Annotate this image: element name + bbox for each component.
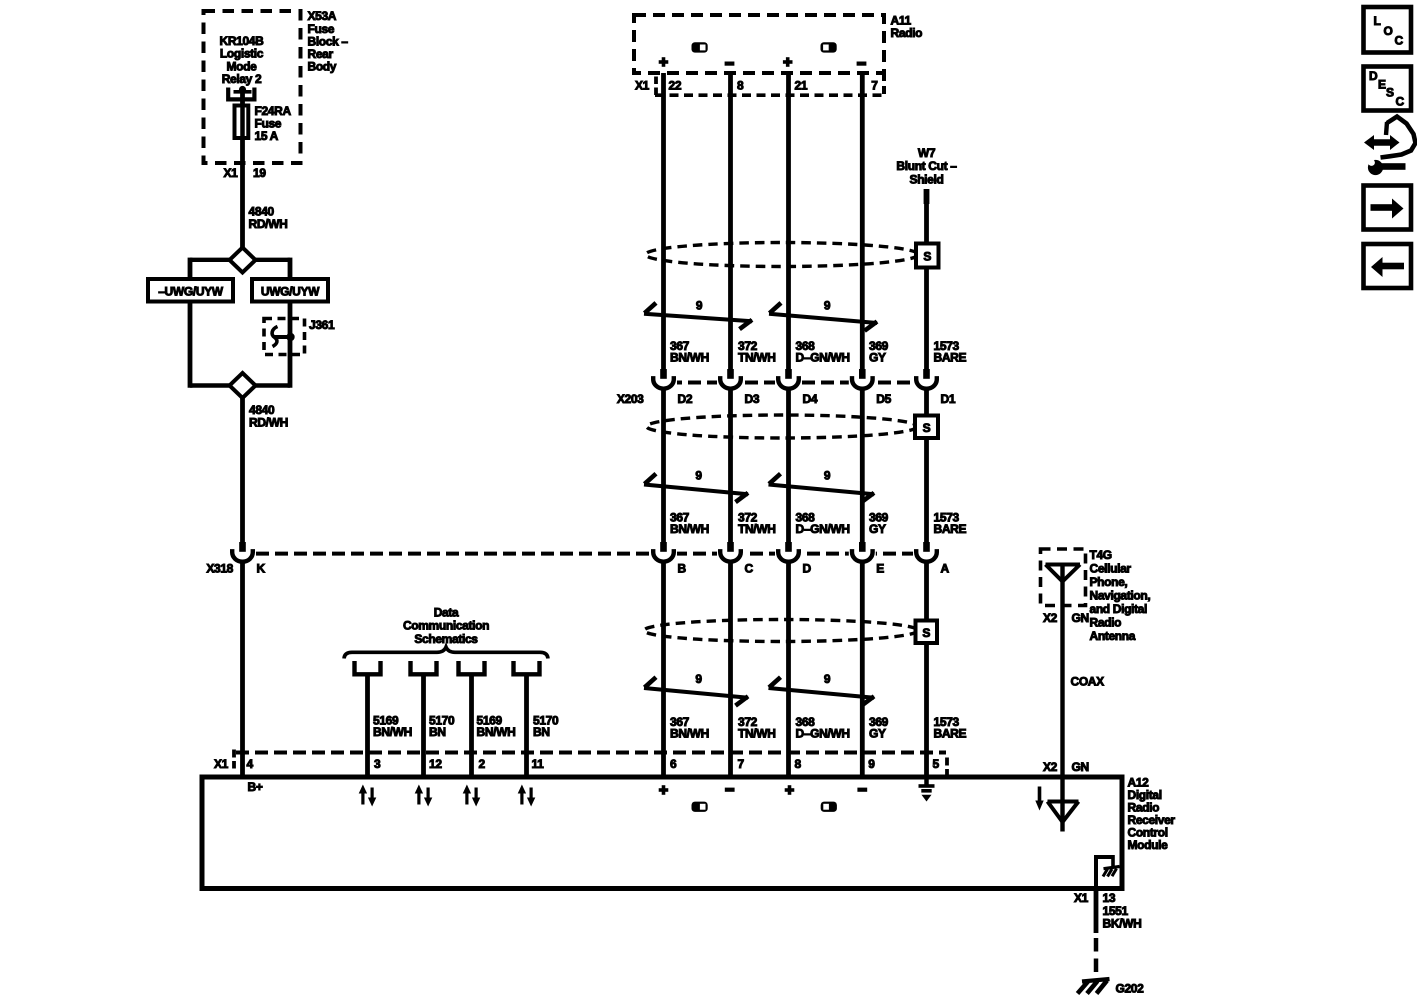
shield terminator S box 2 — [915, 416, 938, 439]
svg-text:S: S — [1386, 86, 1394, 100]
twisted pair row1 wires 368/369 — [769, 299, 877, 331]
polarity - pin 7 — [725, 788, 735, 792]
svg-text:BN: BN — [533, 725, 550, 739]
svg-text:X318: X318 — [206, 562, 233, 576]
wire 1573 BARE X203 to X318 — [924, 389, 929, 542]
svg-text:S: S — [922, 626, 930, 640]
icon box arrow right — [1364, 186, 1412, 230]
twisted pair row1 wires 367/372 — [644, 299, 752, 330]
wire 1551 BK/WH dashed to G202 — [1094, 938, 1099, 978]
wire 369 GY X203 to X318 — [860, 389, 865, 542]
wire 368 D-GN/WH X318 to module — [786, 562, 791, 777]
svg-text:GY: GY — [869, 351, 886, 365]
svg-text:Relay 2: Relay 2 — [222, 72, 262, 86]
svg-text:X1: X1 — [1074, 891, 1089, 905]
connector X318 dashed line — [256, 552, 917, 556]
svg-text:C: C — [745, 562, 754, 576]
svg-text:D–GN/WH: D–GN/WH — [796, 522, 850, 536]
svg-text:3: 3 — [374, 757, 381, 771]
svg-text:UWG/UYW: UWG/UYW — [261, 285, 320, 299]
wire 1573 BARE X318 to module pin 5 — [924, 562, 929, 777]
wire 372 TN/WH radio to X203 — [728, 73, 733, 369]
ground symbol pin 5 — [919, 777, 935, 802]
polarity + pin 22 — [662, 57, 666, 67]
wire left branch down — [188, 302, 193, 388]
speaker icon right channel (radio) — [821, 42, 837, 52]
polarity - pin 9 — [857, 788, 867, 792]
svg-text:GN: GN — [1072, 611, 1089, 625]
svg-text:BARE: BARE — [934, 351, 967, 365]
module X1 connector dashed line — [236, 751, 946, 755]
svg-text:Communication: Communication — [403, 619, 489, 633]
speaker icon right channel (module) — [821, 802, 837, 812]
svg-text:L: L — [1374, 14, 1381, 28]
svg-text:D4: D4 — [803, 392, 818, 406]
svg-text:22: 22 — [669, 79, 682, 93]
bidirectional data arrows pin 3 — [359, 785, 377, 807]
connector X203 terminal D1 — [913, 369, 940, 390]
shield loop 2 (X203 to X318) — [647, 415, 918, 438]
twisted pair row3 wires 367/372 — [644, 672, 748, 706]
connector X203 terminal D4 — [775, 369, 802, 390]
wire 5169 BN/WH data link — [365, 673, 370, 777]
svg-text:5: 5 — [933, 757, 940, 771]
wire 372 TN/WH X203 to X318 — [728, 389, 733, 542]
svg-text:2: 2 — [479, 757, 486, 771]
radio connector X1 end bracket — [654, 77, 658, 85]
coax antenna lead wire — [1060, 563, 1064, 777]
off-page connector serial data 4 — [514, 661, 540, 674]
svg-text:D5: D5 — [876, 392, 891, 406]
svg-text:X1: X1 — [635, 79, 650, 93]
wire 4840 RD/WH X318 to module pin 4 — [240, 562, 245, 777]
wire 5170 BN data link — [421, 673, 426, 777]
polarity - pin 7 — [857, 61, 867, 65]
svg-text:S: S — [923, 421, 931, 435]
connector X203 terminal D2 — [650, 369, 677, 390]
ground G202 symbol — [1078, 979, 1110, 994]
wire 367 BN/WH X318 to module — [661, 562, 666, 777]
svg-text:7: 7 — [738, 757, 745, 771]
wire 367 BN/WH radio to X203 — [661, 73, 666, 369]
connector X318 terminal K — [229, 542, 256, 563]
wire 1573 BARE W7 to X203 — [924, 203, 929, 369]
wire 4840 RD/WH splice to X318 pin K — [240, 396, 245, 542]
connector X203 terminal D5 — [849, 369, 876, 390]
wire right branch down — [288, 302, 293, 388]
svg-text:Blunt Cut –: Blunt Cut – — [896, 159, 957, 173]
svg-text:X2: X2 — [1043, 611, 1058, 625]
svg-text:B: B — [678, 562, 687, 576]
svg-text:J361: J361 — [309, 318, 335, 332]
wire branch lower — [190, 383, 230, 387]
option box UWG/UYW — [252, 279, 328, 302]
svg-text:and Digital: and Digital — [1090, 602, 1148, 616]
svg-text:Shield: Shield — [910, 172, 944, 186]
svg-text:TN/WH: TN/WH — [738, 522, 776, 536]
twisted pair row3 wires 368/369 — [769, 672, 875, 706]
svg-text:BN: BN — [429, 725, 446, 739]
bidirectional data arrows pin 11 — [518, 785, 536, 807]
svg-text:D–GN/WH: D–GN/WH — [796, 351, 850, 365]
svg-text:X1: X1 — [224, 166, 239, 180]
svg-text:BN/WH: BN/WH — [477, 725, 516, 739]
connector X203 dashed line — [650, 381, 917, 385]
wire 4840 RD/WH from fuse to splice — [240, 91, 245, 249]
svg-text:9: 9 — [824, 299, 831, 313]
svg-text:Body: Body — [308, 60, 337, 74]
module X1 bracket right — [945, 758, 949, 766]
off-page connector serial data 3 — [459, 661, 485, 674]
speaker icon left channel (radio) — [692, 42, 708, 52]
svg-text:Data: Data — [434, 606, 459, 620]
wire 369 GY radio to X203 — [860, 73, 865, 369]
svg-text:S: S — [923, 250, 931, 264]
svg-text:Phone,: Phone, — [1090, 575, 1128, 589]
antenna input arrow inside module — [1035, 787, 1043, 811]
splice diamond lower — [230, 373, 256, 398]
wire 1551 BK/WH pin 13 — [1094, 888, 1099, 933]
svg-text:12: 12 — [429, 757, 442, 771]
svg-text:19: 19 — [253, 166, 266, 180]
bidirectional data arrows pin 12 — [415, 785, 433, 807]
icon box arrow left — [1364, 244, 1412, 288]
icon box DESC — [1364, 67, 1412, 111]
svg-text:T4G: T4G — [1090, 548, 1112, 562]
svg-text:K: K — [257, 562, 266, 576]
svg-text:Cellular: Cellular — [1090, 562, 1132, 576]
svg-text:A: A — [941, 562, 950, 576]
svg-text:BN/WH: BN/WH — [670, 351, 709, 365]
svg-text:9: 9 — [696, 299, 703, 313]
shield terminator S box 3 — [916, 621, 938, 644]
svg-text:Module: Module — [1128, 838, 1169, 852]
svg-text:RD/WH: RD/WH — [249, 217, 288, 231]
connector X318 terminal B — [650, 542, 677, 563]
off-page connector serial data 2 — [411, 661, 437, 674]
svg-text:TN/WH: TN/WH — [738, 727, 776, 741]
svg-text:7: 7 — [871, 79, 878, 93]
polarity + pin 8 — [788, 785, 792, 795]
wire 1573 BARE shield drain blunt cut cap — [924, 189, 930, 204]
svg-text:9: 9 — [695, 672, 702, 686]
svg-text:9: 9 — [695, 469, 702, 483]
svg-text:X1: X1 — [214, 757, 229, 771]
connector X318 terminal A — [913, 542, 940, 563]
wire 372 TN/WH X318 to module — [728, 562, 733, 777]
svg-text:E: E — [1378, 78, 1386, 92]
svg-text:X203: X203 — [617, 392, 644, 406]
wire 5169 BN/WH(2) data link — [469, 673, 474, 777]
wire 368 D-GN/WH radio to X203 — [786, 73, 791, 369]
relay KR104B contact symbol — [228, 86, 254, 100]
svg-text:8: 8 — [795, 757, 802, 771]
svg-text:–UWG/UYW: –UWG/UYW — [158, 285, 224, 299]
fuse block X53A dashed box — [204, 11, 301, 163]
svg-text:BN/WH: BN/WH — [670, 727, 709, 741]
fuse F24RA symbol — [235, 106, 249, 139]
svg-text:D–GN/WH: D–GN/WH — [796, 727, 850, 741]
svg-text:BARE: BARE — [934, 727, 967, 741]
splice diamond upper — [230, 248, 256, 273]
twisted pair row2 wires 368/369 — [769, 469, 875, 503]
icon box LOC — [1364, 7, 1412, 53]
svg-text:O: O — [1384, 24, 1393, 38]
wire 369 GY X318 to module — [860, 562, 865, 777]
svg-text:21: 21 — [795, 79, 808, 93]
wire branch upper — [190, 258, 230, 262]
svg-text:BARE: BARE — [934, 522, 967, 536]
brace data communication — [344, 647, 548, 659]
wire 5170 BN(2) data link — [524, 673, 529, 777]
svg-text:D3: D3 — [745, 392, 760, 406]
connector X318 terminal D — [775, 542, 802, 563]
svg-text:GY: GY — [869, 522, 886, 536]
polarity + pin 6 — [662, 785, 666, 795]
svg-text:Navigation,: Navigation, — [1090, 589, 1151, 603]
connector X318 terminal C — [717, 542, 744, 563]
svg-text:X2: X2 — [1043, 760, 1058, 774]
svg-text:15 A: 15 A — [255, 129, 279, 143]
svg-text:13: 13 — [1103, 891, 1116, 905]
svg-text:G202: G202 — [1116, 982, 1145, 996]
svg-text:D2: D2 — [678, 392, 693, 406]
connector X203 terminal D3 — [717, 369, 744, 390]
svg-text:D: D — [1369, 69, 1378, 83]
svg-text:6: 6 — [670, 757, 677, 771]
svg-text:C: C — [1395, 34, 1404, 48]
option box -UWG/UYW — [148, 279, 233, 302]
svg-text:BK/WH: BK/WH — [1103, 917, 1142, 931]
antenna symbol inside module — [1048, 802, 1079, 823]
antenna T4G dashed box — [1041, 549, 1086, 606]
module A12 box — [202, 777, 1122, 889]
antenna symbol T4G — [1046, 565, 1081, 582]
off-page connector serial data 1 — [355, 661, 381, 674]
connector X318 terminal E — [849, 542, 876, 563]
inline connector J361 — [264, 319, 305, 355]
svg-text:RD/WH: RD/WH — [249, 416, 288, 430]
svg-text:Radio: Radio — [891, 26, 923, 40]
shield loop 1 (radio to X203) — [646, 243, 919, 267]
shield terminator S box 1 — [916, 244, 939, 268]
wire 368 D-GN/WH X203 to X318 — [786, 389, 791, 542]
svg-text:GY: GY — [869, 727, 886, 741]
speaker icon left channel (module) — [692, 802, 708, 812]
twisted pair row2 wires 367/372 — [644, 469, 748, 503]
coax inside module — [1060, 777, 1064, 832]
module X1 bracket left — [232, 750, 236, 758]
radio A11 connector right edge extension — [882, 73, 886, 96]
svg-text:B+: B+ — [248, 780, 263, 794]
svg-text:E: E — [876, 562, 884, 576]
svg-text:GN: GN — [1072, 760, 1089, 774]
internal ground wire notch — [1094, 855, 1113, 888]
svg-text:TN/WH: TN/WH — [738, 351, 776, 365]
icon harness routing arrows and wrench — [1364, 117, 1416, 176]
radio A11 dashed box — [634, 15, 884, 73]
svg-text:9: 9 — [824, 672, 831, 686]
svg-text:9: 9 — [824, 469, 831, 483]
svg-text:8: 8 — [737, 79, 744, 93]
svg-text:D: D — [803, 562, 812, 576]
svg-text:Antenna: Antenna — [1090, 629, 1136, 643]
svg-text:BN/WH: BN/WH — [670, 522, 709, 536]
svg-text:C: C — [1396, 95, 1405, 109]
svg-text:BN/WH: BN/WH — [373, 725, 412, 739]
bidirectional data arrows pin 2 — [463, 785, 481, 807]
svg-text:W7: W7 — [918, 146, 936, 160]
polarity - pin 8 — [725, 61, 735, 65]
svg-text:9: 9 — [868, 757, 875, 771]
svg-text:D1: D1 — [941, 392, 956, 406]
internal chassis ground symbol — [1103, 867, 1120, 877]
polarity + pin 21 — [786, 57, 790, 67]
svg-text:4: 4 — [247, 757, 254, 771]
wire 367 BN/WH X203 to X318 — [661, 389, 666, 542]
svg-text:COAX: COAX — [1071, 675, 1105, 689]
radio X1 connector dashed line — [655, 93, 884, 97]
svg-text:11: 11 — [532, 757, 545, 771]
shield loop 3 (X318 to module) — [644, 620, 918, 642]
svg-text:Radio: Radio — [1090, 616, 1122, 630]
